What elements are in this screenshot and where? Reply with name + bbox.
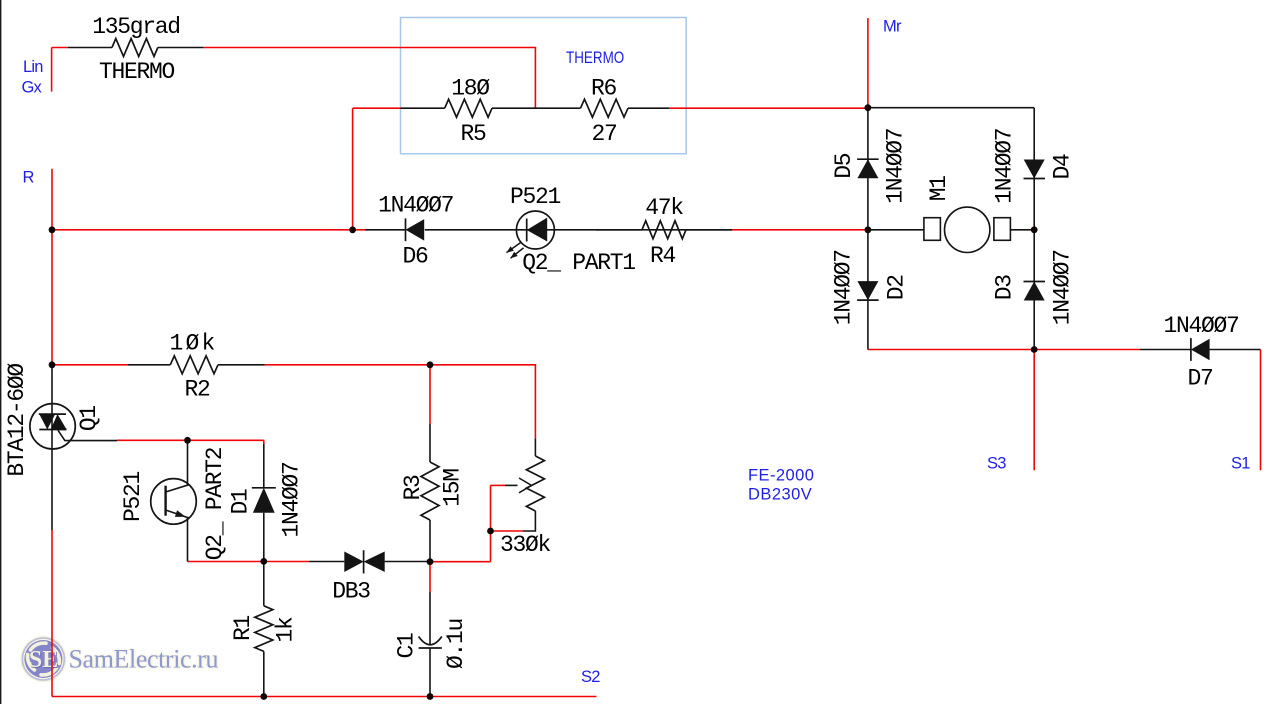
- svg-text:15M: 15M: [440, 469, 466, 507]
- svg-text:R1: R1: [230, 616, 256, 642]
- svg-text:1N4ØØ7: 1N4ØØ7: [1050, 250, 1076, 325]
- svg-text:C1: C1: [394, 633, 420, 659]
- svg-text:THERMO: THERMO: [566, 49, 624, 68]
- svg-text:D5: D5: [831, 153, 857, 179]
- svg-text:S1: S1: [1231, 455, 1250, 473]
- svg-text:THERMO: THERMO: [99, 59, 175, 85]
- svg-text:R: R: [23, 169, 35, 187]
- svg-text:D4: D4: [1050, 154, 1076, 180]
- svg-text:M1: M1: [926, 176, 952, 202]
- svg-text:P521: P521: [120, 472, 146, 523]
- svg-text:1N4ØØ7: 1N4ØØ7: [831, 250, 857, 325]
- svg-text:R2: R2: [184, 377, 210, 403]
- svg-text:Q2_ PART2: Q2_ PART2: [202, 447, 228, 560]
- svg-text:33Øk: 33Øk: [500, 532, 551, 558]
- svg-text:18Ø: 18Ø: [451, 76, 490, 102]
- svg-text:Gx: Gx: [22, 78, 43, 96]
- svg-text:D2: D2: [884, 275, 910, 301]
- svg-text:DB230V: DB230V: [748, 486, 812, 504]
- svg-text:Q1: Q1: [76, 406, 102, 432]
- svg-text:SamElectric.ru: SamElectric.ru: [69, 645, 219, 674]
- svg-text:1N4ØØ7: 1N4ØØ7: [279, 462, 305, 537]
- svg-text:1N4ØØ7: 1N4ØØ7: [883, 129, 909, 204]
- svg-text:1Øk: 1Øk: [169, 330, 217, 356]
- svg-text:FE-2000: FE-2000: [748, 467, 814, 485]
- svg-text:1N4ØØ7: 1N4ØØ7: [992, 129, 1018, 204]
- svg-text:S2: S2: [581, 668, 600, 686]
- svg-text:SE: SE: [29, 647, 58, 673]
- svg-text:D3: D3: [992, 275, 1018, 301]
- svg-text:135grad: 135grad: [92, 14, 180, 40]
- svg-text:Mr: Mr: [883, 17, 902, 35]
- svg-text:1k: 1k: [273, 617, 299, 643]
- svg-text:Q2_ PART1: Q2_ PART1: [522, 250, 635, 276]
- svg-text:47k: 47k: [645, 195, 683, 221]
- svg-text:P521: P521: [510, 184, 561, 210]
- svg-text:S3: S3: [987, 455, 1006, 473]
- svg-text:BTA12-6ØØ: BTA12-6ØØ: [4, 363, 30, 477]
- svg-text:D1: D1: [228, 489, 254, 515]
- svg-text:D7: D7: [1187, 365, 1212, 391]
- svg-text:R3: R3: [400, 475, 426, 501]
- svg-text:1N4ØØ7: 1N4ØØ7: [378, 192, 453, 218]
- svg-text:R6: R6: [591, 76, 617, 102]
- svg-text:27: 27: [591, 121, 616, 147]
- svg-text:DB3: DB3: [332, 579, 370, 605]
- svg-text:Lin: Lin: [23, 58, 43, 76]
- svg-text:Ø.1u: Ø.1u: [443, 619, 469, 669]
- svg-text:D6: D6: [402, 244, 428, 270]
- svg-text:R4: R4: [650, 243, 676, 269]
- svg-text:1N4ØØ7: 1N4ØØ7: [1163, 313, 1238, 339]
- svg-text:R5: R5: [460, 121, 486, 147]
